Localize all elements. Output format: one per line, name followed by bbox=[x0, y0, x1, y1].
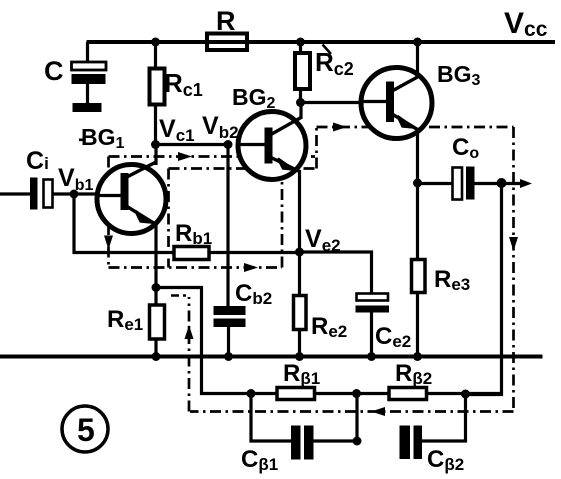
wire output junction down to feedback row bbox=[466, 183, 502, 395]
capacitor Cbeta2 bbox=[400, 426, 423, 460]
node Vcc-BG3 junction bbox=[413, 38, 422, 47]
svg-text:5: 5 bbox=[77, 412, 95, 448]
node Vcc-Rc1 junction bbox=[151, 38, 160, 47]
wire Vc1 node to BG2 base bbox=[156, 143, 228, 146]
node row left bbox=[247, 389, 256, 398]
feedback dash line bottom bbox=[190, 410, 514, 413]
capacitor Co bbox=[453, 167, 475, 200]
arrow down on right dash edge bbox=[509, 237, 518, 251]
feedback dash line under BG2 bbox=[169, 167, 317, 170]
feedback dash line box left edge bbox=[107, 157, 110, 268]
node row right bbox=[461, 390, 470, 399]
wire output node to Co bbox=[418, 182, 454, 185]
stray leader mark near Rc2 bbox=[323, 45, 332, 55]
node Rc2-BG3 base bbox=[296, 98, 305, 107]
feedback dash line through BG3 bbox=[317, 126, 514, 129]
node ground Re1 bbox=[152, 352, 161, 361]
wire Ve2 to Re2 bbox=[298, 252, 301, 296]
node Cbeta junction bbox=[353, 437, 362, 446]
wire BG1 collector riser bbox=[154, 145, 157, 166]
wire Cb2 to ground bbox=[227, 327, 230, 357]
arrow up toward BG1 emitter bbox=[185, 325, 194, 339]
wire feedback row Rb1 to Rb2 bbox=[315, 392, 390, 395]
node Vc1 bbox=[151, 140, 160, 149]
arrow right on top box edge bbox=[178, 152, 192, 161]
arrow down on box left edge bbox=[104, 236, 113, 250]
resistor Re1 bbox=[150, 305, 165, 339]
wire Rc1 to Vc1 node bbox=[154, 105, 157, 145]
node ground Cb2 bbox=[224, 352, 233, 361]
feedback dash line right edge bbox=[512, 127, 515, 412]
wire Cb2b to right leg bbox=[422, 395, 466, 442]
wire Vb1 down and to Rb1 bbox=[74, 194, 174, 253]
resistor Rc2 bbox=[295, 53, 310, 89]
wire mid junction down bbox=[355, 394, 358, 442]
node Vb1 bbox=[70, 190, 79, 199]
wire BG3 collector to Vcc bbox=[416, 42, 419, 78]
wire Vcc corner to capacitor C bbox=[86, 42, 89, 62]
resistor Rb1 bbox=[174, 247, 209, 260]
wire Co to output arrow bbox=[474, 182, 526, 185]
arrow right toward BG3 bbox=[333, 123, 347, 132]
resistor Re2 bbox=[294, 296, 307, 330]
Vcc rail bbox=[87, 40, 556, 44]
wire emitter node down to Re1 bbox=[154, 288, 157, 306]
node BG1 emitter bbox=[152, 283, 161, 292]
wire rail to Rc2 bbox=[299, 42, 302, 53]
wire C to ground bar bbox=[86, 84, 89, 104]
transistor BG2 bbox=[238, 112, 306, 180]
stray dash near emitter node bbox=[171, 294, 186, 296]
wire input left bbox=[0, 192, 30, 195]
node ground Re3 bbox=[413, 352, 422, 361]
wire feedback row right bbox=[427, 392, 502, 395]
node output junction bbox=[497, 178, 507, 188]
resistor Rc1 bbox=[150, 69, 165, 105]
capacitor Cb2 bbox=[214, 306, 246, 327]
feedback dash line box bottom edge bbox=[109, 266, 283, 269]
svg-text:R: R bbox=[216, 6, 236, 36]
arrow right on box bottom edge bbox=[244, 263, 258, 272]
wire BG3 emitter down bbox=[416, 128, 419, 184]
wire BG1 emitter down bbox=[154, 224, 157, 288]
resistor Rbeta2 bbox=[389, 388, 427, 400]
wire BG2 collector riser bbox=[299, 103, 302, 120]
transistor BG3 bbox=[361, 68, 432, 139]
wire Ce2 to ground bbox=[370, 313, 373, 357]
feedback dash riser to BG3 path bbox=[315, 127, 318, 169]
wire Ci to BG1 base bbox=[53, 192, 122, 195]
wire Cb1 left leg bbox=[251, 394, 291, 442]
figure number 5 bbox=[62, 406, 108, 452]
node Vcc-Rc2 junction bbox=[296, 38, 305, 47]
stray dash before BG1 label bbox=[79, 139, 84, 142]
wire Re3 to ground bbox=[416, 292, 419, 357]
ground rail bbox=[0, 355, 543, 359]
arrow left on bottom dash line bbox=[371, 407, 385, 416]
wire Vb2 node down to Cb2 bbox=[226, 145, 229, 307]
feedback dash line BG1 right bbox=[167, 169, 170, 268]
wire Re1 to ground bbox=[154, 339, 157, 357]
node row mid bbox=[352, 389, 361, 398]
capacitor C bbox=[72, 62, 107, 112]
node Vb2 bbox=[224, 140, 233, 149]
wire Cb1 to mid junction bbox=[314, 439, 358, 442]
resistor Re3 bbox=[412, 260, 426, 293]
feedback dash line to BG2 emitter bbox=[281, 180, 284, 268]
feedback dash riser to BG1 emitter bbox=[188, 297, 191, 412]
feedback dash line top box edge bbox=[109, 155, 316, 158]
node ground Re2 bbox=[295, 352, 304, 361]
wire emitter node to feedback row bbox=[156, 288, 277, 394]
capacitor Ci bbox=[30, 178, 53, 210]
capacitor Cbeta1 bbox=[291, 426, 314, 460]
capacitor Ce2 bbox=[356, 294, 390, 313]
node BG3 emitter output bbox=[413, 179, 422, 188]
node ground Ce2 bbox=[367, 352, 376, 361]
wire BG2 emitter down to Ve2 bbox=[298, 170, 301, 252]
wire Re2 to ground bbox=[298, 330, 301, 357]
wire Rb1 to Ve2 bbox=[209, 251, 300, 254]
wire Rc2 to BG3 base node bbox=[299, 89, 302, 103]
wire output node down to Re3 bbox=[416, 184, 419, 260]
transistor BG1 bbox=[97, 162, 166, 234]
wire base node to BG3 bbox=[301, 101, 388, 104]
wire Ve2 to Ce2 bbox=[300, 252, 372, 294]
node Ve2 bbox=[295, 248, 304, 257]
resistor R bbox=[207, 34, 247, 51]
output arrow bbox=[520, 179, 532, 188]
resistor Rbeta1 bbox=[277, 388, 315, 400]
wire rail to Rc1 bbox=[154, 42, 157, 69]
svg-text:C: C bbox=[44, 56, 64, 86]
